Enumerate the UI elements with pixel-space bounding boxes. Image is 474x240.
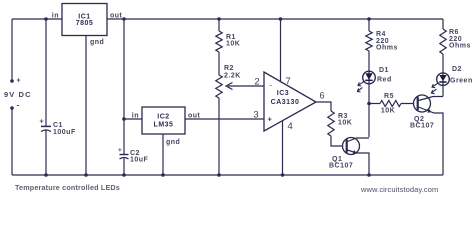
wire C2 column lower (123, 158, 125, 175)
node bottom rail / pin 4 (281, 173, 285, 177)
resistor R4 220 Ohms (366, 31, 372, 51)
node bottom rail / R2 (217, 173, 221, 177)
wire IC1 gnd to bottom rail (85, 36, 87, 176)
svg-text:Ohms: Ohms (376, 44, 398, 51)
wire bottom ground rail (12, 174, 443, 176)
sensor IC2 LM35 (142, 107, 185, 134)
wire IC2 in (124, 118, 142, 120)
wire left rail lower (battery -) (11, 108, 13, 175)
svg-text:2: 2 (254, 77, 259, 88)
svg-text:10K: 10K (226, 41, 240, 48)
svg-text:R2: R2 (224, 65, 234, 72)
svg-text:+: + (17, 78, 21, 85)
wire top rail corner to R6 (442, 19, 444, 29)
svg-text:+: + (268, 115, 273, 124)
svg-text:7: 7 (286, 76, 291, 87)
transistor Q1 BC107 (343, 138, 360, 155)
svg-text:2.2K: 2.2K (224, 73, 241, 80)
svg-text:10K: 10K (381, 108, 395, 115)
svg-text:-: - (17, 101, 20, 110)
svg-text:in: in (52, 13, 59, 20)
wire Q2 emitter (419, 107, 444, 175)
resistor R5 10K (380, 101, 401, 107)
svg-text:Temperature controlled LEDs: Temperature controlled LEDs (15, 183, 120, 192)
svg-text:Green: Green (450, 78, 473, 85)
svg-text:D2: D2 (452, 66, 462, 73)
resistor R6 220 Ohms (440, 29, 446, 54)
wire R2 bottom to rail (218, 98, 220, 175)
svg-text:D1: D1 (379, 67, 389, 74)
wire D1 to Q1 collector column (368, 84, 370, 137)
wire R5 to Q2 base (401, 103, 418, 105)
node bottom rail / C2 (122, 173, 126, 177)
svg-text:LM35: LM35 (154, 122, 174, 129)
resistor R1 10K (216, 31, 222, 52)
wire top rail left segment (12, 18, 62, 20)
svg-text:out: out (110, 13, 123, 20)
resistor R3 10K (328, 111, 334, 136)
node Q1 emitter to rail junction (367, 173, 371, 177)
node R5 junction (367, 102, 371, 106)
potentiometer R2 2.2K (216, 75, 222, 98)
svg-text:www.circuitstoday.com: www.circuitstoday.com (360, 185, 438, 194)
node top rail / C1 (44, 17, 48, 21)
wire Q1 emitter (348, 150, 370, 175)
wire R3 to Q1 base (331, 136, 347, 146)
svg-text:+: + (40, 119, 44, 126)
svg-text:100uF: 100uF (53, 129, 76, 136)
wire op-amp output pin 6 (316, 102, 331, 111)
svg-text:gnd: gnd (90, 39, 104, 46)
wire R2 wiper to op-amp pin 2 (228, 85, 264, 87)
wire top rail right segment (107, 18, 443, 20)
svg-text:CA3130: CA3130 (271, 99, 300, 106)
node top rail / R1 (217, 17, 221, 21)
svg-text:BC107: BC107 (410, 123, 434, 130)
svg-text:+: + (118, 147, 122, 154)
svg-text:gnd: gnd (166, 139, 180, 146)
svg-text:IC3: IC3 (277, 90, 289, 97)
wire D2 to Q2 collector (442, 86, 444, 97)
wire IC2 out to op-amp pin 3 (185, 118, 264, 120)
node bottom rail / IC1 gnd (84, 173, 88, 177)
svg-text:6: 6 (320, 91, 325, 101)
wire R1 top (218, 19, 220, 31)
wire IC2 gnd to bottom rail (162, 134, 164, 175)
svg-text:R5: R5 (384, 93, 394, 100)
node top rail / pin 7 (279, 17, 283, 21)
op-amp IC3 CA3130 (264, 72, 316, 131)
wire C2 column upper (123, 19, 125, 154)
svg-text:Ohms: Ohms (449, 42, 471, 49)
svg-text:10uF: 10uF (130, 157, 149, 164)
wire Q2 collector (419, 97, 444, 101)
svg-text:7805: 7805 (76, 20, 94, 27)
transistor Q2 BC107 (414, 95, 431, 112)
capacitor C2 10uF (120, 154, 129, 156)
wire R4 top (368, 19, 370, 31)
svg-text:10K: 10K (338, 120, 352, 127)
svg-text:3: 3 (253, 110, 258, 121)
wire R6 to D2 (442, 54, 444, 73)
svg-text:4: 4 (288, 121, 293, 132)
node IC2 in junction (122, 117, 126, 121)
svg-text:9V DC: 9V DC (4, 90, 32, 99)
wire R4 to D1 (368, 51, 370, 71)
svg-text:IC2: IC2 (157, 114, 169, 121)
wire Q1 collector (348, 138, 370, 142)
regulator IC1 7805 (62, 4, 107, 36)
wire op-amp pin 7 to top rail (280, 19, 282, 82)
wire C1 column upper (45, 19, 47, 126)
svg-text:Red: Red (377, 77, 392, 84)
wire C1 column lower (45, 130, 47, 175)
node battery - terminal (10, 106, 14, 110)
node bottom rail / C1 (44, 173, 48, 177)
LED D1 Red (363, 71, 376, 84)
capacitor C1 100uF (41, 125, 51, 127)
wire R1 to R2 (218, 52, 220, 75)
node top rail / C2 column (122, 17, 126, 21)
svg-text:BC107: BC107 (329, 163, 353, 170)
node top rail / R4 (367, 17, 371, 21)
wire R5 left (369, 103, 380, 105)
LED D2 Green (437, 73, 450, 86)
wire op-amp pin 4 to bottom rail (282, 121, 284, 175)
wire left rail upper (battery +) (11, 19, 13, 81)
node bottom rail / IC2 gnd (161, 173, 165, 177)
node battery + terminal (10, 79, 14, 83)
